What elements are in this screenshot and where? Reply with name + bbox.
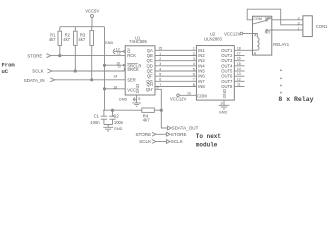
svg-text:SRCK: SRCK [127, 67, 139, 72]
svg-text:STORE: STORE [171, 132, 187, 137]
svg-text:16: 16 [113, 86, 117, 90]
svg-text:1: 1 [298, 27, 300, 31]
wire QB to IN2 [155, 55, 196, 57]
port STORE out symbol [166, 132, 170, 136]
power VCC12V to relay [240, 32, 252, 35]
svg-text:VCC12V: VCC12V [224, 31, 240, 36]
svg-text:12: 12 [117, 52, 121, 56]
svg-text:ULN2803: ULN2803 [204, 37, 222, 42]
svg-text:SER: SER [127, 77, 136, 82]
svg-text:1: 1 [193, 47, 195, 51]
svg-text:4k7: 4k7 [63, 37, 70, 42]
svg-text:8: 8 [138, 97, 140, 101]
power VCC5V [91, 14, 94, 26]
svg-text:2: 2 [193, 52, 195, 56]
svg-text:CON1: CON1 [316, 24, 328, 29]
svg-text:4k7: 4k7 [143, 118, 150, 123]
svg-text:8: 8 [193, 83, 195, 87]
port STORE input symbol [46, 54, 51, 58]
svg-text:C2: C2 [113, 113, 119, 118]
connector CON1 box [303, 16, 312, 37]
wire SCLK to SRCK [52, 68, 125, 71]
node junction R3-SDATA [91, 79, 93, 81]
port SCLK input symbol [47, 69, 52, 73]
pin bubble SRCLR [123, 64, 125, 66]
svg-text:4k7: 4k7 [49, 37, 56, 42]
wire VCC5V bus [60, 26, 105, 28]
svg-text:4k7: 4k7 [78, 37, 85, 42]
svg-text:SCLK: SCLK [32, 69, 44, 74]
relay switch arm [253, 18, 272, 24]
svg-text:STORE: STORE [135, 132, 151, 137]
svg-text:12: 12 [237, 77, 241, 81]
wire VCC pin16 [105, 88, 126, 90]
svg-text:13: 13 [237, 72, 241, 76]
wire OUT4 stub [234, 65, 244, 67]
svg-text:18: 18 [237, 46, 241, 50]
port SDATA_OUT symbol [168, 126, 172, 130]
power VCC12V at COM [177, 94, 197, 97]
relay coil [253, 34, 260, 51]
port STORE pass left symbol [152, 132, 156, 136]
svg-text:100n: 100n [114, 120, 124, 125]
wire OUT6 stub [234, 75, 244, 77]
svg-text:100n: 100n [90, 120, 100, 125]
svg-text:14: 14 [237, 67, 241, 71]
wire QH' serial out [155, 89, 168, 128]
svg-text:NC: NC [265, 17, 271, 21]
svg-text:6: 6 [159, 78, 161, 82]
svg-text:7: 7 [193, 78, 195, 82]
svg-text:SDATA_OUT: SDATA_OUT [172, 126, 199, 131]
svg-text:15: 15 [237, 62, 241, 66]
port SDATA_IN input symbol [50, 78, 55, 82]
svg-text:NO: NO [265, 31, 271, 35]
svg-text:17: 17 [237, 52, 241, 56]
wire QF to IN6 [155, 75, 196, 77]
ground port at pin8 [133, 98, 136, 101]
svg-text:10: 10 [187, 91, 191, 95]
svg-text:SCLK: SCLK [171, 139, 184, 144]
relay COM wire loop [247, 9, 297, 25]
svg-text:VCC12V: VCC12V [170, 97, 186, 102]
wire OUT1 to relay coil [234, 49, 252, 51]
capacitor C2 [109, 110, 115, 124]
node junction VCC-pin16 [103, 88, 105, 90]
relay NO contact [266, 30, 272, 31]
resistor R1 [58, 27, 62, 56]
wire VCC vertical [104, 27, 106, 111]
wire OUT7 stub [234, 80, 244, 82]
svg-text:uC: uC [2, 68, 9, 75]
svg-text:GND: GND [114, 127, 123, 131]
svg-text:11: 11 [117, 65, 121, 69]
wire decoupling rail [103, 109, 142, 111]
wire OUT8 stub [234, 86, 244, 88]
svg-text:module: module [196, 141, 218, 148]
svg-text:COM: COM [197, 93, 207, 98]
svg-text:6: 6 [193, 73, 195, 77]
svg-text:SCLK: SCLK [139, 139, 152, 144]
svg-text:3: 3 [193, 57, 195, 61]
wire QG to IN7 [155, 80, 196, 82]
wire OUT2 stub [234, 55, 244, 57]
wire STORE pass [156, 133, 167, 135]
pin bubble G [123, 51, 125, 53]
svg-text:3: 3 [298, 22, 300, 26]
port SCLK pass left symbol [152, 140, 156, 144]
svg-text:16: 16 [237, 57, 241, 61]
svg-text:4: 4 [193, 62, 195, 66]
wire NC to CON1 pin2 [272, 19, 303, 21]
wire QD to IN4 [155, 65, 196, 67]
resistor R2 [74, 27, 78, 71]
svg-text:COM: COM [253, 17, 262, 21]
svg-text:5: 5 [159, 73, 161, 77]
ground wire pin8 U1 [136, 95, 138, 103]
svg-text:2: 2 [159, 57, 161, 61]
resistor R4 [142, 108, 162, 112]
ground symbol U1 [132, 103, 141, 106]
svg-text:74HC595: 74HC595 [129, 39, 147, 44]
port SCLK out symbol [166, 140, 170, 144]
node junction R2-SCLK [74, 70, 76, 72]
svg-text:GND: GND [119, 97, 128, 101]
wire QH to IN8 [155, 86, 196, 88]
wire SDATA_IN to SER [55, 79, 125, 81]
svg-text:VCC5V: VCC5V [85, 9, 99, 14]
svg-text:3: 3 [159, 62, 161, 66]
wire SRCLR tie high [105, 64, 124, 66]
wire NO to CON1 pin1 [272, 29, 303, 31]
svg-text:QH': QH' [146, 87, 153, 92]
svg-text:RCK: RCK [127, 53, 136, 58]
wire STORE to RCK [51, 55, 125, 57]
relay RELAY1 box [253, 16, 272, 55]
svg-text:5: 5 [193, 67, 195, 71]
wire OUT5 stub [234, 70, 244, 72]
svg-text:OUT8: OUT8 [221, 84, 233, 89]
wire caps join [104, 125, 113, 128]
wire OUT3 stub [234, 60, 244, 62]
wire QE to IN5 [155, 70, 196, 72]
svg-text:2: 2 [298, 17, 300, 21]
svg-text:C1: C1 [94, 113, 100, 118]
ground symbol U2 [219, 105, 230, 109]
node junction VCC-SRCLR [103, 64, 105, 66]
wire CON1 pin3 stub [297, 24, 303, 26]
svg-text:To next: To next [196, 133, 222, 140]
svg-text:GND: GND [219, 111, 228, 115]
diagram U2 ULN2803 box [196, 46, 234, 101]
ground wire pin9 U2 [223, 100, 225, 106]
capacitor C1 [101, 110, 107, 124]
wire QA to IN1 [155, 49, 196, 51]
svg-text:14: 14 [113, 75, 117, 79]
svg-text:GND: GND [135, 84, 140, 93]
node ellipsis dots for repeated relays [280, 69, 282, 93]
svg-text:STORE: STORE [27, 53, 42, 58]
svg-text:SDATA_IN: SDATA_IN [24, 78, 45, 83]
node junction R4-QHp [160, 109, 162, 111]
svg-text:4: 4 [159, 67, 161, 71]
svg-text:IN8: IN8 [198, 84, 205, 89]
svg-text:1: 1 [159, 52, 161, 56]
ground port at pin13 [113, 49, 123, 55]
op-amp U1 74HC595 box [125, 46, 155, 95]
ground symbol caps [103, 127, 113, 131]
svg-text:A: A [254, 34, 257, 38]
svg-text:GND: GND [222, 89, 227, 98]
svg-text:7: 7 [159, 83, 161, 87]
svg-text:9: 9 [221, 102, 223, 106]
svg-text:GND: GND [105, 41, 114, 45]
wire QC to IN3 [155, 60, 196, 62]
svg-text:15: 15 [158, 47, 162, 51]
wire SCLK pass [156, 141, 167, 143]
svg-text:9: 9 [157, 86, 159, 90]
svg-text:RELAY1: RELAY1 [273, 42, 289, 47]
node junction R1-STORE [59, 54, 61, 56]
node junction C2 rail [111, 109, 113, 111]
svg-text:8 x Relay: 8 x Relay [278, 96, 313, 103]
svg-text:11: 11 [237, 83, 241, 87]
resistor R3 [90, 27, 94, 80]
